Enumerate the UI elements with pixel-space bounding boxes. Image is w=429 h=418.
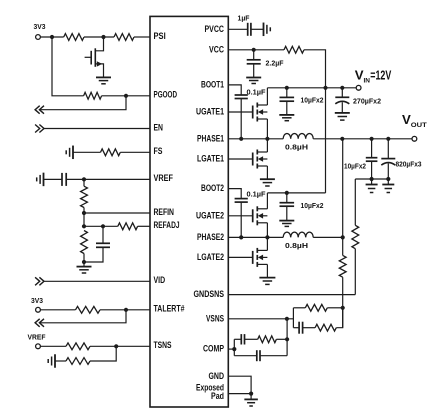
- svg-text:VID: VID: [154, 275, 166, 285]
- svg-text:VREF: VREF: [28, 333, 46, 342]
- svg-text:VCC: VCC: [209, 44, 225, 54]
- svg-text:3V3: 3V3: [31, 296, 43, 305]
- svg-text:2.2µF: 2.2µF: [266, 60, 285, 67]
- svg-text:0.8µH: 0.8µH: [285, 144, 308, 151]
- svg-text:Pad: Pad: [211, 391, 224, 401]
- svg-text:UGATE2: UGATE2: [196, 210, 224, 220]
- svg-text:LGATE2: LGATE2: [197, 252, 224, 262]
- svg-text:REFIN: REFIN: [154, 207, 175, 217]
- svg-text:REFADJ: REFADJ: [154, 220, 180, 230]
- svg-text:UGATE1: UGATE1: [196, 107, 224, 117]
- svg-text:COMP: COMP: [203, 344, 224, 354]
- svg-text:V: V: [355, 67, 364, 82]
- svg-text:V: V: [402, 112, 411, 127]
- svg-text:VREF: VREF: [154, 173, 174, 183]
- svg-text:10µFx2: 10µFx2: [301, 98, 324, 105]
- svg-text:=12V: =12V: [370, 68, 391, 82]
- svg-text:0.8µH: 0.8µH: [285, 243, 308, 250]
- svg-text:TSNS: TSNS: [154, 340, 172, 350]
- svg-text:270µFx2: 270µFx2: [353, 99, 381, 106]
- svg-text:PHASE2: PHASE2: [197, 232, 224, 242]
- svg-text:GNDSNS: GNDSNS: [194, 289, 225, 299]
- svg-text:10µFx2: 10µFx2: [301, 203, 324, 210]
- svg-text:0.1µF: 0.1µF: [247, 191, 267, 198]
- svg-text:FS: FS: [154, 146, 163, 156]
- svg-text:LGATE1: LGATE1: [197, 154, 224, 164]
- svg-text:PSI: PSI: [154, 31, 166, 41]
- svg-text:3V3: 3V3: [34, 22, 46, 31]
- svg-text:BOOT2: BOOT2: [201, 183, 224, 193]
- svg-text:820µFx3: 820µFx3: [396, 161, 422, 168]
- svg-text:PVCC: PVCC: [205, 24, 225, 34]
- svg-text:1µF: 1µF: [238, 16, 251, 23]
- svg-text:EN: EN: [154, 122, 164, 132]
- svg-text:PGOOD: PGOOD: [154, 90, 178, 100]
- svg-text:GND: GND: [209, 371, 225, 381]
- svg-text:0.1µF: 0.1µF: [247, 90, 267, 97]
- svg-text:OUT: OUT: [411, 122, 428, 129]
- svg-text:PHASE1: PHASE1: [197, 133, 224, 143]
- svg-text:BOOT1: BOOT1: [201, 80, 224, 90]
- svg-text:VSNS: VSNS: [206, 313, 224, 323]
- svg-text:IN: IN: [364, 78, 371, 85]
- svg-text:TALERT#: TALERT#: [154, 304, 185, 314]
- svg-text:10µFx2: 10µFx2: [344, 164, 366, 171]
